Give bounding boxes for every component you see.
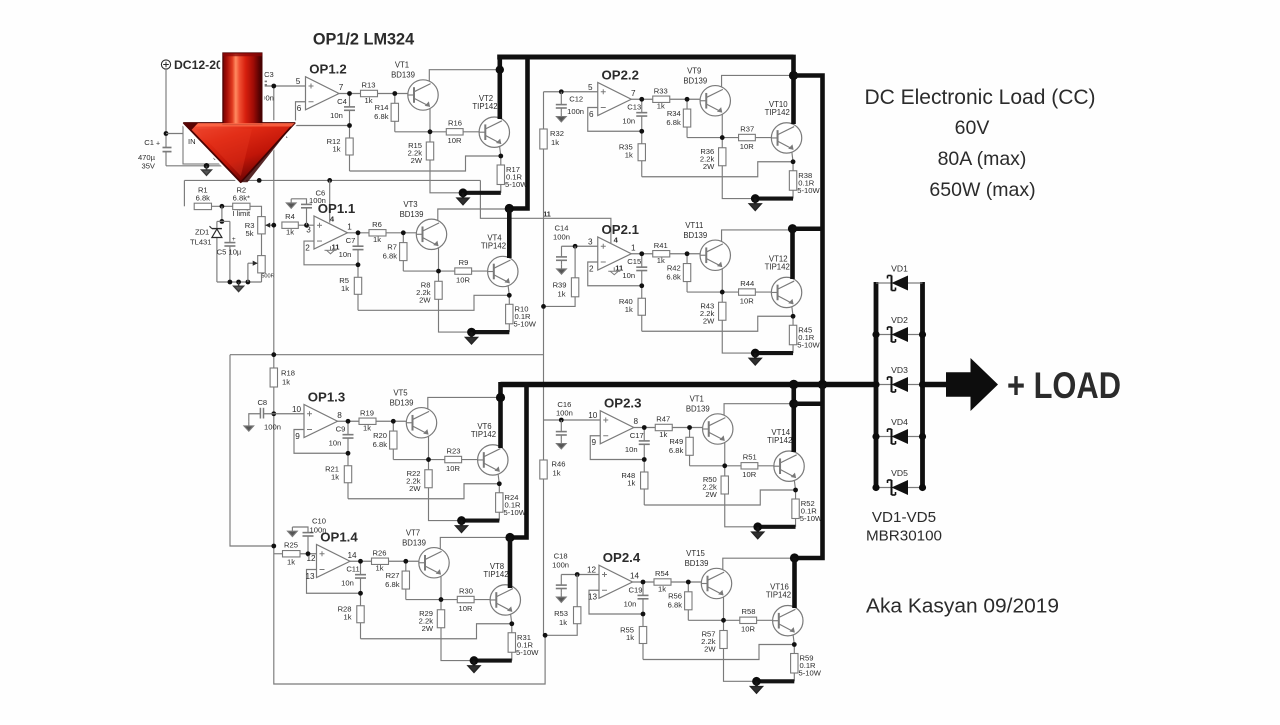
wire OP2.4 +in line xyxy=(561,574,599,576)
node base rail OP2.2 xyxy=(720,135,725,140)
wire +12V supply rail xyxy=(184,179,480,181)
svg-text:VD1: VD1 xyxy=(891,264,908,274)
wire emitter of VT15 xyxy=(723,595,725,620)
node output OP1.3 xyxy=(346,419,351,424)
svg-text:10R: 10R xyxy=(740,296,754,305)
svg-text:R47: R47 xyxy=(656,415,670,424)
resistor R9 10R xyxy=(455,268,472,274)
resistor R32 1k xyxy=(540,129,547,149)
node emitter VT2 xyxy=(498,154,503,159)
wire emitter of VT4 xyxy=(508,283,510,295)
wire fb lower rail OP2.4 xyxy=(642,614,644,627)
wire collector of VT5 xyxy=(428,397,499,409)
svg-text:OP2.4: OP2.4 xyxy=(603,550,641,565)
node VT1 collector on bus xyxy=(496,66,504,74)
svg-text:BD139: BD139 xyxy=(390,398,414,407)
wire 0.1R to ground rail OP1.3 xyxy=(498,512,500,520)
wire setpoint cross rail xyxy=(230,354,544,356)
resistor R59 0.1R 5-10W xyxy=(791,654,798,674)
wire R2 to pot R3 xyxy=(250,206,262,216)
node base feed VT13 xyxy=(687,425,692,430)
resistor R7 6.8k xyxy=(400,243,407,261)
resistor R55 1k xyxy=(639,627,646,644)
svg-text:5-10W: 5-10W xyxy=(797,340,820,349)
red arrow head xyxy=(184,123,295,182)
wire fb lower rail OP1.1 xyxy=(357,265,359,278)
wire base rail OP1.2 xyxy=(395,131,447,133)
svg-text:C17: C17 xyxy=(630,431,644,440)
node base feed VT9 xyxy=(685,97,690,102)
wire OP2.3 +in line xyxy=(544,419,601,421)
resistor R28 1k xyxy=(357,606,364,623)
wire cap branch OP1.2 xyxy=(349,94,351,107)
node VT5 collector junction xyxy=(496,393,505,402)
svg-text:3: 3 xyxy=(306,225,311,234)
wire cap branch OP2.2 xyxy=(641,99,643,112)
wire base rail OP2.1 xyxy=(687,291,739,293)
arrow + LOAD output xyxy=(946,358,998,411)
wire 6.8k branch OP2.1 xyxy=(686,254,688,264)
red arrow head dark right edge xyxy=(241,123,295,182)
wire thick bus to VT6 collector xyxy=(498,382,503,448)
wire 0.1R to ground rail OP1.4 xyxy=(511,652,513,660)
svg-text:6.8k: 6.8k xyxy=(666,272,681,281)
node base feed VT11 xyxy=(685,251,690,256)
svg-text:100n: 100n xyxy=(567,107,584,116)
resistor R14 6.8k xyxy=(391,103,398,121)
node base rail OP2.1 xyxy=(720,290,725,295)
wire output of OP2.3 xyxy=(634,427,656,429)
op-amp OP1.2 xyxy=(306,77,340,110)
wire emitter of VT2 xyxy=(499,144,501,156)
svg-text:TIP142: TIP142 xyxy=(767,436,792,445)
svg-text:6.8k: 6.8k xyxy=(196,193,211,202)
node VD2 right xyxy=(919,331,926,338)
capacitor C7 10n xyxy=(353,245,364,247)
resistor R1 6.8k xyxy=(194,203,211,209)
wire 500R to rail xyxy=(261,273,263,282)
svg-text:R42: R42 xyxy=(667,263,681,272)
resistor R18 1k xyxy=(270,368,277,387)
capacitor C8 100n xyxy=(259,408,261,419)
svg-text:5-10W: 5-10W xyxy=(516,648,539,657)
wire output of OP1.4 xyxy=(350,560,372,562)
svg-text:BD139: BD139 xyxy=(683,231,707,240)
node base rail OP1.2 xyxy=(428,129,433,134)
resistor R27 6.8k xyxy=(402,571,409,589)
svg-text:VT1: VT1 xyxy=(395,61,409,70)
svg-text:1k: 1k xyxy=(658,584,666,593)
node VT3 collector junction xyxy=(505,204,514,213)
node VT13 collector junction xyxy=(789,399,798,408)
resistor R25 1k xyxy=(283,551,301,557)
svg-text:12: 12 xyxy=(587,566,597,575)
ground symbol OP1.1 xyxy=(465,332,477,344)
svg-text:6.8k: 6.8k xyxy=(374,112,389,121)
svg-text:60V: 60V xyxy=(955,117,990,139)
node VD3 left xyxy=(872,381,879,388)
svg-text:2W: 2W xyxy=(703,316,715,325)
wire to R25 xyxy=(274,553,283,555)
node base feed VT3 xyxy=(401,230,406,235)
svg-text:10n: 10n xyxy=(330,111,343,120)
wire emitter of VT6 xyxy=(498,472,500,484)
resistor R15 2.2k 2W xyxy=(426,142,433,160)
node bus A on LOAD rail xyxy=(789,380,799,390)
wire R18 to OP1.3 input xyxy=(273,387,275,414)
node base rail OP1.4 xyxy=(439,597,444,602)
svg-text:1k: 1k xyxy=(657,102,665,111)
red arrow shaft top cap xyxy=(223,53,262,56)
wire emitter of VT10 xyxy=(792,150,794,162)
node base rail OP1.1 xyxy=(436,269,441,274)
wire cap branch OP1.3 xyxy=(347,421,349,434)
capacitor C19 10n xyxy=(638,594,649,596)
node base rail OP2.4 xyxy=(721,618,726,623)
transistor VT1 BD139 xyxy=(408,80,438,110)
ground rail OP2.1 xyxy=(755,351,793,355)
node VD4 right xyxy=(919,433,926,440)
wire 2.2k branch OP1.1 xyxy=(438,271,440,281)
wire 6.8k branch OP2.2 xyxy=(686,99,688,109)
wire 0.1R to ground rail OP2.2 xyxy=(792,190,794,198)
wire emitter of VT13 xyxy=(724,441,726,466)
wire OP1.3 +in line xyxy=(264,413,305,415)
wire cap branch OP1.1 xyxy=(357,233,359,246)
node VD3 right xyxy=(919,381,926,388)
svg-text:BD139: BD139 xyxy=(402,538,426,547)
wire ZD1/C5 branch xyxy=(221,206,223,221)
wire feedback loop OP1.4 xyxy=(307,570,361,594)
svg-text:5k: 5k xyxy=(245,229,253,238)
node VT11 collector junction xyxy=(788,224,797,233)
wire base rail OP2.2 xyxy=(687,137,739,139)
svg-text:C14: C14 xyxy=(555,224,569,233)
svg-text:1k: 1k xyxy=(627,479,635,488)
wire 6.8k branch OP2.3 xyxy=(689,428,691,438)
capacitor C12 100n xyxy=(559,89,564,94)
svg-text:BD139: BD139 xyxy=(686,405,710,414)
wire thick bus A right column xyxy=(791,55,796,124)
resistor R40 1k xyxy=(638,298,645,315)
wire thick bus B to VT12 xyxy=(793,226,823,231)
svg-text:1: 1 xyxy=(631,243,636,252)
svg-text:R26: R26 xyxy=(373,548,387,557)
svg-text:1k: 1k xyxy=(559,618,567,627)
capacitor C18 100n xyxy=(560,575,562,586)
node emitter VT10 xyxy=(791,159,796,164)
capacitor C14 100n xyxy=(561,246,563,257)
svg-text:R16: R16 xyxy=(448,119,462,128)
resistor R38 0.1R 5-10W xyxy=(789,171,796,191)
wire feedback loop OP2.1 xyxy=(588,262,642,286)
wire fb lower rail OP1.4 xyxy=(360,593,362,606)
ground symbol OP2.1 xyxy=(749,353,761,365)
svg-text:100n: 100n xyxy=(553,233,570,242)
svg-text:VD3: VD3 xyxy=(891,365,908,375)
resistor R17 0.1R 5-10W xyxy=(497,165,504,185)
node output OP1.1 xyxy=(356,230,361,235)
wire cap branch OP2.3 xyxy=(643,428,645,441)
svg-text:+: + xyxy=(156,141,160,148)
svg-text:C18: C18 xyxy=(554,552,568,561)
svg-text:VT11: VT11 xyxy=(685,221,703,230)
svg-text:650W (max): 650W (max) xyxy=(929,179,1035,201)
svg-text:2: 2 xyxy=(305,243,310,252)
wire 6.8k branch OP1.3 xyxy=(392,421,394,431)
svg-text:14: 14 xyxy=(347,551,357,560)
diode VD3 MBR30100 xyxy=(876,384,891,386)
svg-text:1k: 1k xyxy=(282,378,290,387)
op-amp OP2.2 xyxy=(598,82,632,115)
wire emitter of VT1 xyxy=(429,107,431,132)
svg-text:35V: 35V xyxy=(141,162,155,171)
ground symbol OP1.4 xyxy=(468,661,480,673)
capacitor C6 100n xyxy=(301,203,312,205)
wire base rail OP1.1 xyxy=(403,270,455,272)
node VT15 collector junction xyxy=(790,553,799,562)
svg-text:OP2.2: OP2.2 xyxy=(602,67,639,82)
capacitor C17 10n xyxy=(639,440,650,442)
svg-text:10n: 10n xyxy=(624,599,637,608)
node output OP1.2 xyxy=(347,91,352,96)
ground rail OP1.4 xyxy=(474,658,512,662)
wire 2.2k branch OP2.3 xyxy=(724,466,726,476)
wire R3 to 500R pot xyxy=(261,234,263,256)
node emitter VT4 xyxy=(507,293,512,298)
svg-text:1k: 1k xyxy=(331,472,339,481)
svg-text:6.8k: 6.8k xyxy=(383,251,398,260)
transistor VT4 TIP142 xyxy=(488,256,518,286)
wire cap branch OP2.4 xyxy=(642,582,644,595)
svg-text:11: 11 xyxy=(543,210,551,219)
transistor VT14 TIP142 xyxy=(774,451,804,481)
resistor R54 1k xyxy=(654,579,671,585)
wire thick bus drop to row 2 xyxy=(509,55,527,209)
capacitor C4 10n xyxy=(344,106,355,108)
svg-text:9: 9 xyxy=(591,438,596,447)
svg-text:C1: C1 xyxy=(144,138,154,147)
svg-text:MBR30100: MBR30100 xyxy=(866,528,942,545)
svg-text:VT15: VT15 xyxy=(686,549,705,558)
op-amp OP1.4 xyxy=(317,544,351,577)
svg-text:R44: R44 xyxy=(740,279,754,288)
resistor R31 0.1R 5-10W xyxy=(508,633,515,653)
ground symbol left input xyxy=(202,166,212,176)
svg-text:10R: 10R xyxy=(742,470,756,479)
wire fb lower rail OP2.2 xyxy=(641,131,643,144)
svg-text:C4: C4 xyxy=(337,97,347,106)
ground symbol OP2.4 xyxy=(750,681,762,693)
wire 2.2k branch OP1.2 xyxy=(429,132,431,142)
svg-text:R9: R9 xyxy=(459,258,469,267)
wire feedback loop OP1.1 xyxy=(304,241,358,265)
resistor R13 1k xyxy=(361,90,378,96)
svg-text:R32: R32 xyxy=(550,129,564,138)
node base feed VT7 xyxy=(403,559,408,564)
wire R1-R2 junction xyxy=(212,205,233,207)
resistor R34 6.8k xyxy=(683,109,690,127)
svg-text:R56: R56 xyxy=(668,592,682,601)
svg-text:100n: 100n xyxy=(552,561,569,570)
resistor R43 2.2k 2W xyxy=(719,302,726,320)
capacitor C15 10n xyxy=(636,266,647,268)
transistor VT5 BD139 xyxy=(406,408,436,438)
svg-text:1k: 1k xyxy=(657,256,665,265)
svg-text:VD4: VD4 xyxy=(891,417,908,427)
node emitter VT16 xyxy=(792,642,797,647)
svg-text:R58: R58 xyxy=(742,607,756,616)
svg-text:6.8k: 6.8k xyxy=(669,446,684,455)
resistor R58 10R xyxy=(740,617,757,623)
svg-text:R39: R39 xyxy=(553,281,567,290)
wire diode right rail xyxy=(920,282,925,490)
terminal + DC input xyxy=(161,60,170,69)
ground symbol OP2.2 xyxy=(749,199,761,211)
transistor VT3 BD139 xyxy=(416,219,446,249)
ground symbol pin 11 OP1.1 xyxy=(330,246,332,250)
ground rail OP1.3 xyxy=(462,518,500,522)
svg-text:IN: IN xyxy=(188,137,196,146)
svg-text:13: 13 xyxy=(305,572,315,581)
svg-text:VT1: VT1 xyxy=(690,395,704,404)
wire 2.2k branch OP2.2 xyxy=(721,138,723,148)
wire collector of VT13 xyxy=(724,404,795,416)
svg-text:6.8k: 6.8k xyxy=(666,118,681,127)
wire thick bus A below rail xyxy=(791,382,796,452)
svg-text:1k: 1k xyxy=(625,305,633,314)
wire base rail OP1.3 xyxy=(393,459,445,461)
node supply to opamp1 V+ xyxy=(327,178,332,183)
diode VD4 MBR30100 xyxy=(876,436,891,438)
svg-text:VD2: VD2 xyxy=(891,315,908,325)
wire thick bus drop to row 4 left xyxy=(510,382,527,538)
wire feedback loop OP1.2 xyxy=(296,102,350,126)
wire cap branch OP2.1 xyxy=(641,254,643,267)
node base feed VT5 xyxy=(391,419,396,424)
svg-text:VT3: VT3 xyxy=(403,200,417,209)
svg-text:13: 13 xyxy=(588,593,598,602)
capacitor C3 100n (partly hidden) xyxy=(256,80,267,82)
svg-text:10n: 10n xyxy=(622,117,635,126)
svg-text:6.8k: 6.8k xyxy=(668,601,683,610)
op-amp OP2.3 xyxy=(600,411,634,444)
wire OP1.2 +in line xyxy=(256,85,305,87)
wire emitter of VT16 xyxy=(793,633,795,645)
resistor R46 1k xyxy=(540,460,547,479)
node VD5 left xyxy=(872,484,879,491)
wire output of OP2.2 xyxy=(631,98,653,100)
transistor VT16 TIP142 xyxy=(773,606,803,636)
node regulator IN xyxy=(164,131,169,136)
node VD5 right xyxy=(919,484,926,491)
svg-text:1k: 1k xyxy=(626,633,634,642)
svg-text:1k: 1k xyxy=(332,145,340,154)
svg-text:R7: R7 xyxy=(387,242,397,251)
svg-text:2W: 2W xyxy=(411,156,423,165)
svg-text:1k: 1k xyxy=(364,96,372,105)
op-amp OP2.4 xyxy=(599,565,633,598)
resistor R12 1k xyxy=(346,138,353,155)
svg-text:R6: R6 xyxy=(372,220,382,229)
wire collector of VT15 xyxy=(723,558,794,570)
wire output of OP1.3 xyxy=(338,420,360,422)
svg-text:10: 10 xyxy=(588,411,598,420)
svg-text:R4: R4 xyxy=(285,212,295,221)
wire 0.1R to ground rail OP1.1 xyxy=(508,324,510,332)
svg-text:R41: R41 xyxy=(654,241,668,250)
svg-text:5: 5 xyxy=(588,83,593,92)
resistor R45 0.1R 5-10W xyxy=(789,325,796,345)
resistor R37 10R xyxy=(739,134,756,140)
node R1-R2 xyxy=(220,204,225,209)
svg-text:10R: 10R xyxy=(446,464,460,473)
transistor VT10 TIP142 xyxy=(771,123,801,153)
wire fb lower rail OP2.3 xyxy=(643,460,645,473)
svg-text:OP2.1: OP2.1 xyxy=(602,222,639,237)
svg-text:1: 1 xyxy=(347,222,352,231)
svg-text:10R: 10R xyxy=(448,136,462,145)
wire C1 to ground rail xyxy=(165,152,167,166)
wire emitter of VT5 xyxy=(428,434,430,459)
wire thick bus B to row 4 right xyxy=(795,385,823,559)
svg-text:BD139: BD139 xyxy=(685,559,709,568)
wire 0.1R to ground rail OP2.4 xyxy=(793,673,795,681)
wire 6.8k branch OP1.2 xyxy=(394,94,396,104)
svg-text:100n: 100n xyxy=(264,423,281,432)
node output OP2.3 xyxy=(642,425,647,430)
wire base rail OP1.4 xyxy=(406,599,458,601)
resistor R48 1k xyxy=(641,472,648,489)
svg-text:C19: C19 xyxy=(629,585,643,594)
wire collector of VT3 xyxy=(438,209,509,221)
resistor R39 1k xyxy=(573,244,578,249)
svg-text:6.8k: 6.8k xyxy=(385,580,400,589)
wire cap branch OP1.4 xyxy=(360,561,362,574)
svg-text:2: 2 xyxy=(589,264,594,273)
voltage regulator box (hidden by arrow) xyxy=(183,123,260,164)
svg-text:R54: R54 xyxy=(655,569,669,578)
svg-text:2W: 2W xyxy=(704,645,716,654)
ground symbol pin 11 OP2.1 xyxy=(613,267,615,271)
svg-text:C5 10µ: C5 10µ xyxy=(217,248,242,257)
svg-text:C11: C11 xyxy=(346,565,359,574)
svg-text:+: + xyxy=(232,236,236,243)
wire collector of VT1 xyxy=(429,70,500,82)
ground rail OP2.3 xyxy=(758,525,796,529)
resistor R19 1k xyxy=(359,418,376,424)
svg-text:5-10W: 5-10W xyxy=(504,508,527,517)
capacitor C1 470u 35V xyxy=(163,147,172,149)
resistor R29 2.2k 2W xyxy=(437,610,444,628)
svg-text:6: 6 xyxy=(297,104,302,113)
transistor VT12 TIP142 xyxy=(771,277,801,307)
transistor VT6 TIP142 xyxy=(478,445,508,475)
svg-text:500R: 500R xyxy=(261,274,274,280)
svg-text:OP1/2 LM324: OP1/2 LM324 xyxy=(313,30,414,48)
svg-text:12: 12 xyxy=(306,554,316,563)
wire diode left rail xyxy=(874,282,879,490)
svg-text:2W: 2W xyxy=(409,484,421,493)
svg-text:BD139: BD139 xyxy=(400,210,424,219)
resistor R6 1k xyxy=(369,230,386,236)
wire output of OP1.1 xyxy=(348,232,370,234)
svg-text:BD139: BD139 xyxy=(391,71,415,80)
svg-text:6.8k*: 6.8k* xyxy=(233,193,250,202)
svg-text:10n: 10n xyxy=(625,445,638,454)
svg-text:R18: R18 xyxy=(281,369,295,378)
svg-text:OP1.3: OP1.3 xyxy=(308,389,345,404)
